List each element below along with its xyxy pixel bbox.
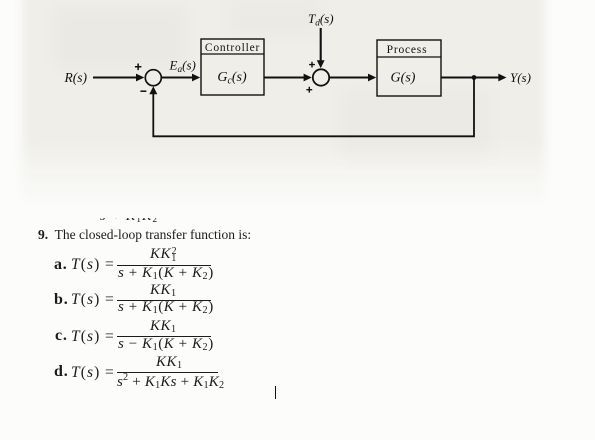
svg-text:R(s): R(s) [64, 70, 88, 85]
svg-text:Td(s): Td(s) [308, 11, 334, 29]
svg-text:Y(s): Y(s) [510, 70, 531, 85]
svg-text:Gc(s): Gc(s) [217, 70, 247, 87]
svg-text:Process: Process [387, 44, 428, 56]
svg-text:Controller: Controller [205, 42, 260, 54]
svg-text:G(s): G(s) [391, 71, 416, 86]
svg-text:Ea(s): Ea(s) [169, 57, 196, 75]
